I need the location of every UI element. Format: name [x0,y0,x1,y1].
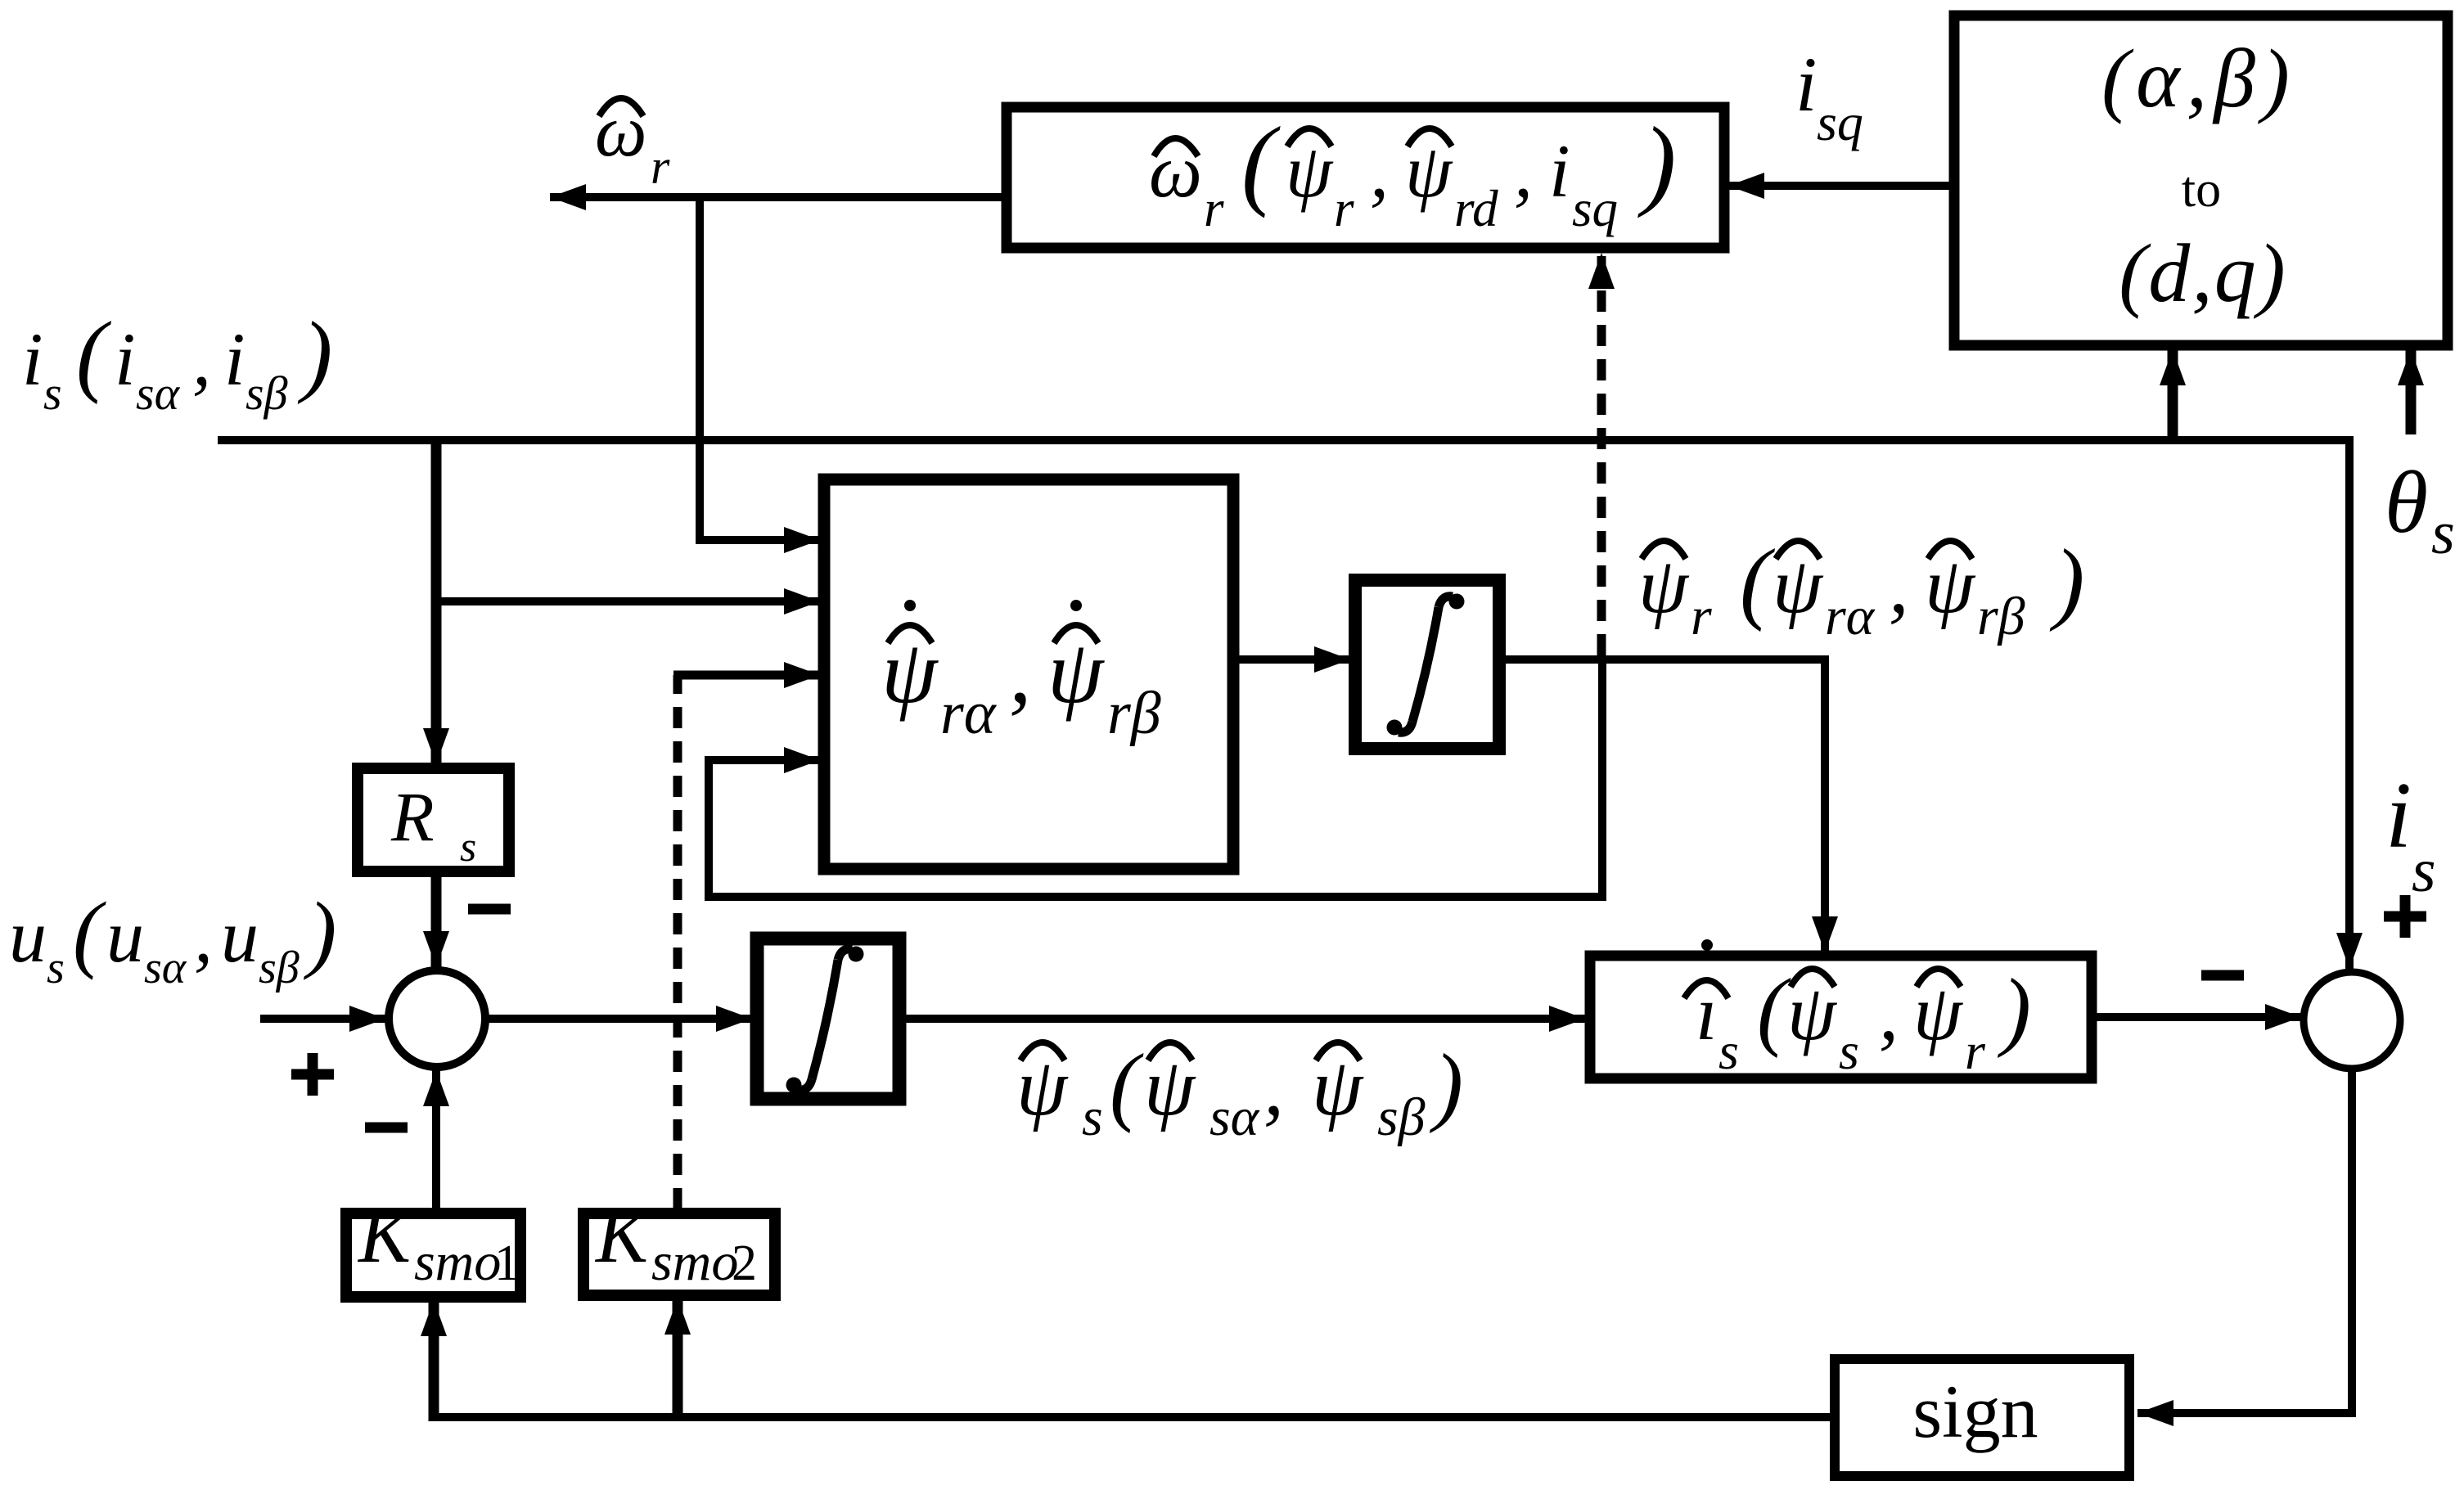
svg-text:s: s [1082,1087,1103,1147]
svg-text:,: , [1879,969,1899,1056]
svg-text:,: , [1370,129,1389,213]
svg-text:smo: smo [414,1232,501,1292]
svg-text:rd: rd [1454,180,1498,237]
svg-text:,: , [194,894,213,978]
svg-text:i: i [22,317,43,401]
svg-text:r: r [1691,587,1712,646]
svg-text:s: s [43,367,62,420]
svg-text:,: , [1889,542,1909,630]
svg-text:): ) [1997,961,2031,1059]
svg-text:(α,β): (α,β) [2101,33,2296,125]
svg-text:sβ: sβ [1377,1087,1426,1147]
svg-text:sα: sα [1209,1087,1260,1147]
svg-text:sβ: sβ [245,367,288,420]
svg-text:1: 1 [494,1236,520,1291]
svg-text:u: u [106,894,144,978]
svg-text:r: r [1965,1022,1986,1080]
svg-text:smo: smo [651,1232,738,1292]
svg-text:ω: ω [1149,129,1202,213]
svg-text:s: s [2431,500,2455,567]
svg-text:rβ: rβ [1107,680,1161,747]
svg-text:(: ( [1110,1037,1144,1134]
svg-text:,: , [1264,1042,1284,1132]
svg-text:s: s [1839,1022,1859,1080]
svg-text:r: r [651,140,670,194]
svg-text:s: s [2412,836,2436,905]
svg-text:2: 2 [732,1236,757,1291]
svg-text:s: s [1718,1022,1739,1080]
svg-text:sq: sq [1572,180,1618,237]
svg-text:s: s [47,943,65,993]
svg-text:θ: θ [2385,454,2428,551]
svg-text:i: i [2385,763,2412,867]
svg-text:): ) [2049,531,2084,632]
svg-text:to: to [2182,162,2221,218]
svg-text:(: ( [1241,106,1281,218]
svg-text:): ) [1637,106,1676,218]
svg-text:rβ: rβ [1977,587,2025,646]
svg-text:(d,q): (d,q) [2119,227,2286,320]
svg-text:K: K [357,1191,415,1279]
svg-text:sα: sα [144,943,187,993]
svg-text:s: s [460,824,476,871]
svg-text:,: , [1009,622,1032,722]
svg-text:rα: rα [1825,587,1876,646]
svg-text:i: i [1795,41,1817,128]
svg-text:(: ( [73,885,106,980]
svg-text:sq: sq [1817,93,1863,151]
svg-text:u: u [9,894,47,978]
svg-text:(: ( [1757,961,1791,1059]
svg-text:u: u [221,894,259,978]
svg-text:sβ: sβ [259,943,300,993]
svg-text:sign: sign [1912,1370,2038,1453]
svg-text:): ) [1429,1037,1463,1134]
svg-text:sα: sα [136,367,181,420]
svg-text:ω: ω [595,91,647,172]
svg-text:R: R [390,777,435,856]
svg-text:,: , [1514,129,1533,213]
svg-text:r: r [1204,180,1224,237]
svg-text:,: , [192,317,211,401]
svg-text:): ) [297,304,332,405]
svg-text:i: i [115,317,136,401]
svg-text:r: r [1334,180,1354,237]
svg-text:): ) [303,885,336,980]
svg-text:K: K [594,1191,652,1279]
svg-text:i: i [224,317,245,401]
svg-text:rα: rα [940,680,998,747]
svg-text:i: i [1549,129,1570,213]
